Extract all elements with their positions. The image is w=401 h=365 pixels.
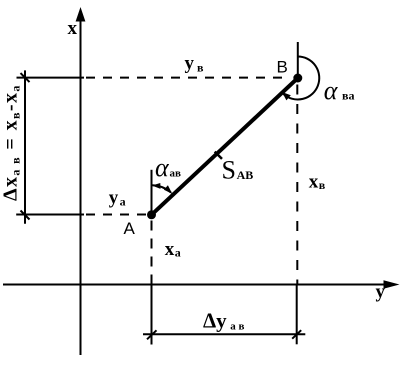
dashed line y_в bbox=[86, 77, 284, 79]
extension line below axis at A bbox=[151, 285, 153, 345]
tick at left of Δy dimension bbox=[147, 330, 157, 339]
dimension line Δy (bottom) bbox=[143, 333, 305, 335]
angle arc α_ав bbox=[153, 185, 171, 192]
point B bbox=[293, 74, 302, 83]
tick on S_AB bbox=[215, 152, 222, 159]
svg-text:в: в bbox=[197, 61, 204, 75]
svg-text:y: y bbox=[376, 282, 386, 303]
svg-text:x: x bbox=[165, 239, 175, 260]
tick at right of Δy dimension bbox=[292, 330, 301, 339]
tick at top of Δx dimension bbox=[21, 73, 30, 82]
svg-text:а: а bbox=[120, 195, 126, 209]
dashed line x_в (below B) bbox=[296, 85, 298, 284]
dashed line x_а (below A) bbox=[151, 221, 153, 284]
svg-text:в: в bbox=[319, 178, 326, 192]
svg-text:α: α bbox=[324, 76, 339, 105]
svg-text:S: S bbox=[222, 155, 236, 184]
extension line y_а (solid part) bbox=[16, 214, 84, 216]
dashed line y_а bbox=[86, 214, 147, 216]
point A bbox=[147, 210, 156, 219]
north line at A bbox=[151, 170, 153, 215]
svg-text:x: x bbox=[309, 172, 319, 193]
svg-text:а: а bbox=[175, 246, 181, 260]
svg-text:ва: ва bbox=[342, 89, 354, 103]
north line at B bbox=[297, 42, 299, 78]
svg-text:АВ: АВ bbox=[237, 168, 254, 182]
line S_AB bbox=[152, 78, 298, 215]
tick at bottom of Δx dimension bbox=[21, 211, 30, 220]
svg-text:y: y bbox=[185, 53, 195, 74]
svg-text:x: x bbox=[68, 18, 78, 39]
extension line y_в (solid part) bbox=[17, 77, 85, 79]
y axis bbox=[3, 284, 388, 286]
svg-text:А: А bbox=[124, 219, 136, 238]
x axis bbox=[80, 16, 82, 355]
dimension line Δx (left vertical) bbox=[24, 70, 26, 223]
svg-text:ав: ав bbox=[170, 168, 182, 180]
svg-text:В: В bbox=[277, 58, 288, 77]
svg-text:Δy: Δy bbox=[203, 309, 227, 333]
svg-text:α: α bbox=[155, 153, 170, 182]
angle arc α_ва bbox=[283, 57, 319, 100]
svg-text:Δxа в = xв-xа: Δxа в = xв-xа bbox=[0, 84, 23, 201]
svg-text:а в: а в bbox=[230, 321, 244, 333]
extension line below axis at B bbox=[296, 285, 298, 345]
svg-text:y: y bbox=[109, 188, 119, 209]
